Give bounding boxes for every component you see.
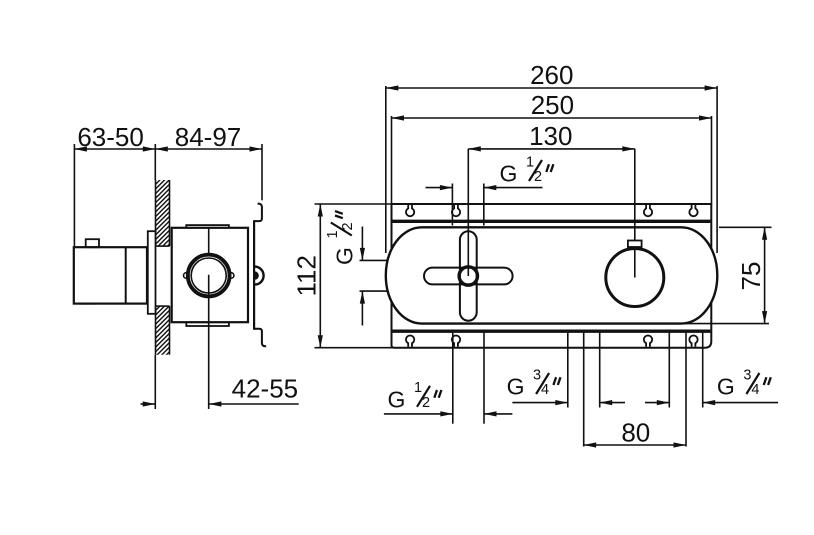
svg-text:250: 250: [531, 90, 574, 120]
svg-text:75: 75: [736, 262, 766, 291]
svg-text:84-97: 84-97: [175, 122, 242, 152]
svg-text:260: 260: [530, 60, 573, 90]
svg-text:42-55: 42-55: [232, 373, 299, 403]
svg-text:63-50: 63-50: [77, 122, 144, 152]
svg-text:G: G: [717, 374, 735, 400]
svg-text:130: 130: [529, 121, 572, 151]
svg-text:3: 3: [743, 367, 751, 383]
svg-text:112: 112: [292, 255, 322, 296]
svg-text:2: 2: [534, 169, 542, 185]
svg-text:4: 4: [541, 382, 549, 398]
svg-text:4: 4: [751, 382, 759, 398]
svg-text:1: 1: [325, 230, 341, 238]
svg-text:2: 2: [340, 222, 356, 230]
svg-text:G: G: [388, 386, 406, 412]
svg-text:1: 1: [414, 380, 422, 396]
svg-text:80: 80: [621, 417, 650, 447]
svg-text:G: G: [500, 161, 518, 187]
svg-text:G: G: [331, 247, 357, 265]
svg-text:2: 2: [422, 395, 430, 411]
svg-text:G: G: [507, 374, 525, 400]
svg-text:1: 1: [526, 154, 534, 170]
svg-text:3: 3: [533, 367, 541, 383]
